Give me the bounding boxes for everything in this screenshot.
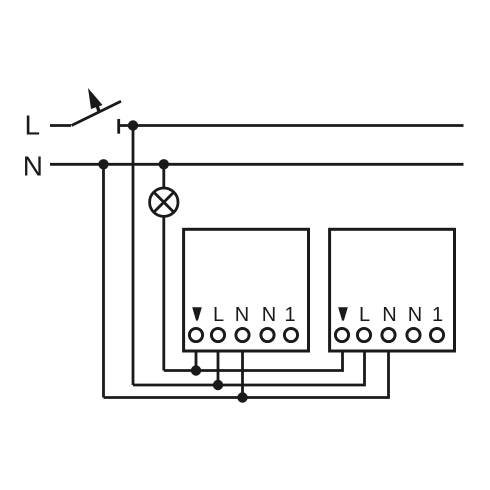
wire N dropper to bus C xyxy=(102,164,105,397)
lamp E1 xyxy=(150,188,178,216)
svg-text:N: N xyxy=(408,304,422,326)
svg-text:1: 1 xyxy=(284,304,295,326)
wire U1 terminal-N to bus C xyxy=(241,351,244,398)
U1 terminal N2 xyxy=(261,328,274,341)
svg-text:L: L xyxy=(359,304,370,326)
node: bus A junction xyxy=(191,365,201,375)
box U1 (insert 1) xyxy=(184,229,309,351)
switch S1 fixed contact tick xyxy=(117,119,120,134)
U1 terminal arrow xyxy=(189,328,202,341)
U2 pin label arrow-down xyxy=(338,307,348,320)
node: switched-L junction xyxy=(128,120,138,130)
U2 terminal L xyxy=(357,328,370,341)
svg-text:N: N xyxy=(382,304,396,326)
node: N to bus C xyxy=(98,159,108,169)
svg-text:L: L xyxy=(213,304,224,326)
svg-text:L: L xyxy=(25,110,41,141)
node: bus B junction xyxy=(213,380,223,390)
wire U1 terminal-L to bus B xyxy=(217,351,220,385)
switch S1 actuation arrow xyxy=(88,88,103,113)
switch S1 blade xyxy=(72,101,122,125)
wire N bus (to right edge) xyxy=(50,163,464,166)
U1 terminal L xyxy=(211,328,224,341)
box U2 (insert 2) xyxy=(330,229,455,351)
bus B (switched L to boxes, y=385) xyxy=(133,351,365,385)
bus A (lamp return to boxes, y=370.5) xyxy=(164,351,343,371)
U2 terminal 1 xyxy=(430,328,443,341)
U1 terminal 1 xyxy=(284,328,297,341)
wire L feed segment xyxy=(50,124,71,127)
svg-text:N: N xyxy=(23,151,43,182)
bus C (N to boxes, y=397.5) xyxy=(104,351,389,398)
U1 pin label arrow-down xyxy=(192,307,202,320)
svg-text:1: 1 xyxy=(432,304,443,326)
svg-text:N: N xyxy=(235,304,249,326)
U2 terminal N2 xyxy=(407,328,420,341)
wire N to lamp and bus A xyxy=(162,164,165,370)
wire L switched bus (to right edge) xyxy=(119,124,464,127)
wire switched-L dropper to bus B xyxy=(132,126,135,386)
U2 terminal arrow xyxy=(335,328,348,341)
node: bus C junction xyxy=(237,392,247,402)
wire U1 terminal-arrow to bus A xyxy=(195,351,198,371)
node: N to lamp xyxy=(159,159,169,169)
U1 terminal N xyxy=(236,328,249,341)
U2 terminal N xyxy=(382,328,395,341)
svg-text:N: N xyxy=(262,304,276,326)
